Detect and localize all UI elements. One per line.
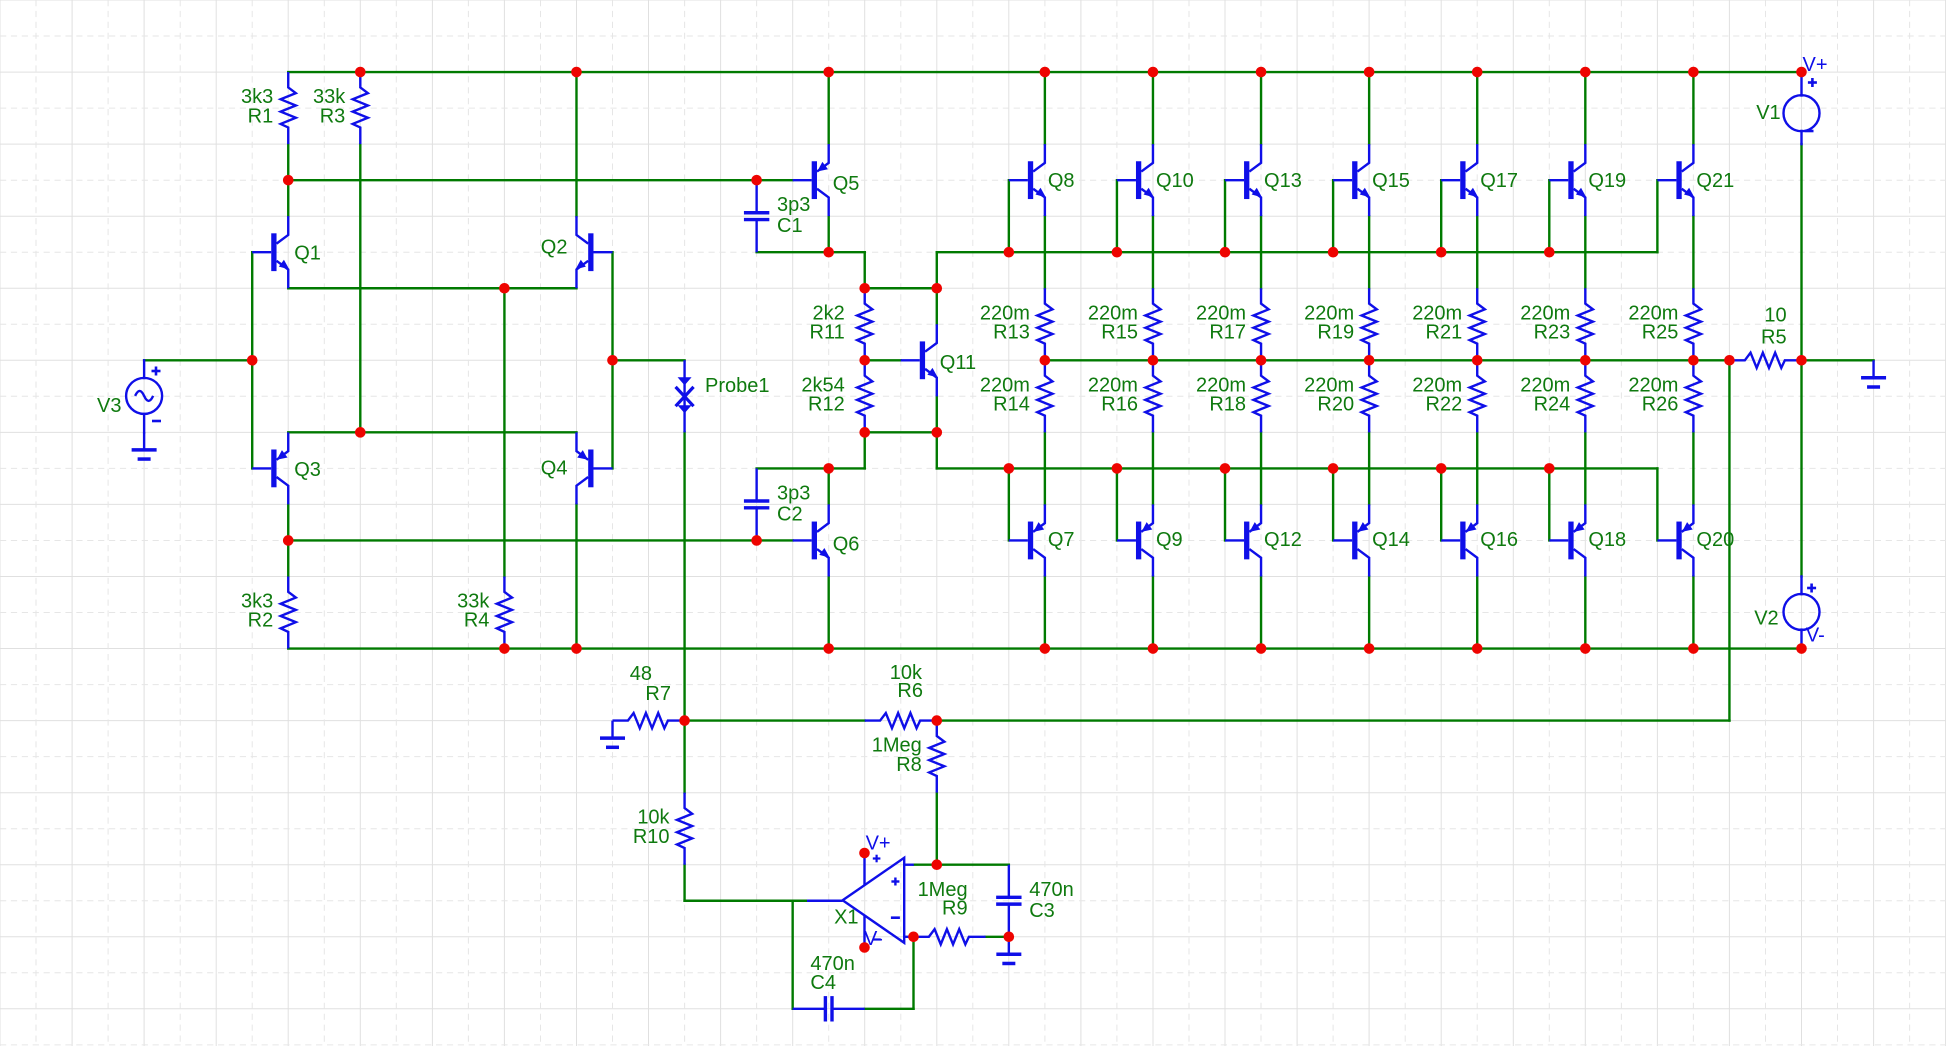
svg-text:48: 48 — [630, 663, 652, 685]
wire Q15 base column — [1332, 180, 1334, 252]
resistor R24 — [1578, 360, 1593, 432]
wire R22 to Q16 emitter — [1476, 432, 1478, 504]
wire V3 minus stub — [143, 414, 145, 432]
wire output rail y10 — [1045, 359, 1730, 361]
wire V3 plus stub — [143, 360, 145, 378]
junction top rail x23 — [823, 67, 834, 78]
wire Q18 collector down — [1584, 576, 1586, 648]
junction bias rail y7 x28 — [1004, 247, 1015, 258]
junction V3 node — [247, 355, 258, 366]
wire Q11 collector up — [936, 252, 938, 288]
junction bias rail y13 x43 — [1544, 463, 1555, 474]
wire R1 bottom to node — [287, 144, 289, 180]
junction bottom rail x35 — [1256, 643, 1267, 654]
svg-text:C3: C3 — [1029, 900, 1055, 922]
wire R20 to Q14 emitter — [1368, 432, 1370, 504]
resistor R25 — [1686, 288, 1701, 360]
wire V2 top column — [1800, 360, 1802, 576]
wire V3 to base node — [144, 359, 252, 361]
wire Q11 collector lead up — [936, 288, 938, 324]
junction bias rail y13 x28 — [1004, 463, 1015, 474]
svg-text:Q12: Q12 — [1264, 529, 1302, 551]
junction top rail x35 — [1256, 67, 1267, 78]
wire y8 R11 to Q11 — [865, 287, 937, 289]
svg-text:R4: R4 — [464, 610, 490, 632]
svg-text:X1: X1 — [834, 907, 858, 929]
svg-text:R10: R10 — [633, 826, 670, 848]
wire y13 C2 to corner — [757, 467, 865, 469]
wire Q17 emitter to R21 — [1476, 216, 1478, 288]
wire R8 bottom down — [936, 793, 938, 865]
wire R9 to C3 node — [986, 936, 1009, 938]
svg-text:Q8: Q8 — [1048, 170, 1075, 192]
wire Q2 Q4 base column — [611, 252, 613, 468]
capacitor C1 — [744, 180, 769, 252]
wire Q21 emitter to R25 — [1692, 216, 1694, 288]
svg-text:V1: V1 — [1756, 102, 1780, 124]
resistor R3 — [353, 72, 368, 144]
wire R10 bottom down — [683, 865, 685, 901]
junction C3 bottom — [1004, 931, 1015, 942]
resistor R26 — [1686, 360, 1701, 432]
svg-text:V-: V- — [864, 928, 883, 950]
wire Q9 base column — [1116, 468, 1118, 540]
transistor Q20 — [1657, 504, 1693, 576]
svg-text:3p3: 3p3 — [777, 482, 810, 504]
wire R4 column — [503, 288, 505, 576]
wire Q14 base column — [1332, 468, 1334, 540]
svg-text:V-: V- — [1806, 624, 1825, 646]
resistor R1 — [281, 72, 296, 144]
svg-text:Q3: Q3 — [294, 459, 321, 481]
transistor Q7 — [1009, 504, 1045, 576]
wire Q12 base column — [1224, 468, 1226, 540]
wire Probe1 down to R7 node — [683, 432, 685, 720]
junction bias rail y7 x31 — [1112, 247, 1123, 258]
wire Q13 collector up — [1260, 72, 1262, 144]
wire V1 plus stub — [1800, 75, 1802, 95]
junction bottom rail x29 — [1040, 643, 1051, 654]
junction opamp minus input — [908, 931, 919, 942]
wire y5 R1 to Q5 base — [288, 179, 792, 181]
junction bottom rail x50 — [1796, 643, 1807, 654]
junction output rail x32 — [1148, 355, 1159, 366]
svg-text:Q13: Q13 — [1264, 170, 1302, 192]
svg-text:R16: R16 — [1101, 394, 1138, 416]
junction bias rail y7 x43 — [1544, 247, 1555, 258]
transistor Q2 — [575, 216, 612, 288]
wire Q19 emitter to R23 — [1584, 216, 1586, 288]
wire Q14 collector down — [1368, 576, 1370, 648]
wire Q21 base column — [1656, 180, 1658, 252]
wire base column Q1 Q3 — [251, 252, 253, 468]
wire Q1 Q2 emitter rail — [288, 287, 576, 289]
svg-text:V3: V3 — [97, 395, 121, 417]
wire y15 to Q6 base — [288, 539, 792, 541]
resistor R10 — [677, 793, 692, 865]
junction Q3 collector R2 — [283, 535, 294, 546]
wire Q5 emitter down — [827, 216, 829, 252]
transistor Q14 — [1333, 504, 1369, 576]
transistor Q3 — [252, 432, 288, 504]
junction bias rail y7 x37 — [1328, 247, 1339, 258]
svg-text:Q19: Q19 — [1588, 170, 1626, 192]
wire top bias rail y7 — [937, 251, 1658, 253]
svg-text:Q4: Q4 — [541, 457, 568, 479]
wire Q21 collector up — [1692, 72, 1694, 144]
wire Q16 collector down — [1476, 576, 1478, 648]
wire opamp output green — [793, 900, 807, 902]
svg-text:R15: R15 — [1101, 321, 1138, 343]
svg-text:R21: R21 — [1426, 321, 1463, 343]
junction bottom rail x47 — [1688, 643, 1699, 654]
junction output rail x50 — [1796, 355, 1807, 366]
wire R14 to Q7 emitter — [1044, 432, 1046, 504]
transistor Q12 — [1225, 504, 1261, 576]
wire Q5 collector up — [827, 72, 829, 144]
svg-text:V2: V2 — [1754, 608, 1778, 630]
junction bottom rail x38 — [1364, 643, 1375, 654]
wire Q9 collector down — [1152, 576, 1154, 648]
wire top V+ rail — [288, 71, 1801, 73]
transistor Q6 — [793, 504, 830, 576]
resistor R11 — [857, 288, 872, 360]
junction output rail x41 — [1472, 355, 1483, 366]
junction R1 node — [283, 175, 294, 186]
junction probe tap — [607, 355, 618, 366]
resistor R15 — [1145, 288, 1160, 360]
resistor R6 — [865, 713, 937, 728]
junction output rail x38 — [1364, 355, 1375, 366]
voltage source V2 — [1784, 594, 1820, 630]
junction Q6 collector — [823, 463, 834, 474]
junction bias rail y13 x40 — [1436, 463, 1447, 474]
resistor R22 — [1470, 360, 1485, 432]
wire Q17 base column — [1440, 180, 1442, 252]
svg-text:R9: R9 — [942, 898, 968, 920]
wire node to Probe1 — [613, 359, 685, 361]
wire Q10 collector up — [1152, 72, 1154, 144]
svg-text:C1: C1 — [777, 215, 803, 237]
wire node to Q1 collector — [287, 180, 289, 216]
wire Q15 emitter to R19 — [1368, 216, 1370, 288]
resistor R2 — [281, 576, 296, 648]
junction bias rail y13 x37 — [1328, 463, 1339, 474]
wire R5 right to ground — [1802, 359, 1874, 361]
junction output rail x47 — [1688, 355, 1699, 366]
junction top rail x50 — [1796, 67, 1807, 78]
transistor Q8 — [1009, 144, 1046, 216]
junction R3 bottom — [355, 427, 366, 438]
resistor R12 — [857, 360, 872, 432]
wire Q18 base column — [1548, 468, 1550, 540]
junction bottom rail x23 — [823, 643, 834, 654]
svg-text:R20: R20 — [1317, 394, 1354, 416]
junction C2 bottom — [751, 535, 762, 546]
transistor Q19 — [1549, 144, 1586, 216]
junction top rail x41 — [1472, 67, 1483, 78]
svg-text:R25: R25 — [1642, 321, 1679, 343]
junction y8 R11 top — [859, 283, 870, 294]
svg-text:R12: R12 — [808, 394, 845, 416]
svg-text:R23: R23 — [1534, 321, 1571, 343]
junction bias rail y13 x34 — [1220, 463, 1231, 474]
wire C3 node to C3 top — [937, 864, 1009, 866]
wire Q8 collector up — [1044, 72, 1046, 144]
wire Q19 collector up — [1584, 72, 1586, 144]
resistor R21 — [1470, 288, 1485, 360]
transistor Q17 — [1441, 144, 1478, 216]
wire V2 minus stub — [1800, 630, 1802, 649]
svg-text:R1: R1 — [248, 105, 274, 127]
svg-text:Q15: Q15 — [1372, 170, 1410, 192]
junction bottom rail x32 — [1148, 643, 1159, 654]
resistor R18 — [1253, 360, 1268, 432]
transistor Q9 — [1117, 504, 1153, 576]
svg-text:Q9: Q9 — [1156, 529, 1183, 551]
op-amp X1 — [807, 853, 914, 948]
wire Q17 collector up — [1476, 72, 1478, 144]
wire R18 to Q12 emitter — [1260, 432, 1262, 504]
resistor R16 — [1145, 360, 1160, 432]
junction bottom rail x14 — [499, 643, 510, 654]
svg-text:V+: V+ — [866, 832, 891, 854]
voltage source V3 — [126, 378, 162, 414]
junction R7 node — [679, 715, 690, 726]
wire Q7 base column — [1008, 468, 1010, 540]
wire R3 column down — [359, 144, 361, 432]
transistor Q4 — [576, 432, 612, 504]
ground at R7 — [600, 721, 625, 748]
resistor R13 — [1037, 288, 1052, 360]
wire R7 to R6 — [685, 719, 865, 721]
wire R10 top column — [683, 721, 685, 793]
junction output rail x44 — [1580, 355, 1591, 366]
wire Q6 emitter down — [827, 576, 829, 648]
wire R12 node down — [864, 432, 866, 468]
wire bottom bias rail y13 — [937, 467, 1658, 469]
wire Q16 base column — [1440, 468, 1442, 540]
svg-text:R5: R5 — [1761, 326, 1787, 348]
node V+ terminal at op-amp — [859, 848, 870, 859]
resistor R9 — [914, 929, 986, 944]
ground at R5 — [1861, 360, 1886, 387]
transistor Q15 — [1333, 144, 1370, 216]
wire y12 R12 to Q11 emitter — [865, 431, 937, 433]
junction output rail x29 — [1040, 355, 1051, 366]
svg-text:C4: C4 — [810, 972, 836, 994]
capacitor C2 — [744, 468, 769, 540]
resistor R4 — [497, 576, 512, 648]
svg-text:Q2: Q2 — [541, 237, 568, 259]
wire R26 to Q20 emitter — [1692, 432, 1694, 504]
junction bias rail y13 x31 — [1112, 463, 1123, 474]
junction R11 R12 — [859, 355, 870, 366]
transistor Q18 — [1549, 504, 1585, 576]
resistor R23 — [1578, 288, 1593, 360]
svg-text:R19: R19 — [1317, 321, 1354, 343]
svg-text:R6: R6 — [897, 680, 923, 702]
junction R6 R8 node — [931, 715, 942, 726]
junction bottom rail x41 — [1472, 643, 1483, 654]
resistor R8 — [929, 721, 944, 793]
wire bottom emitter rail — [288, 647, 1801, 649]
wire Q11 emitter down — [936, 396, 938, 432]
junction top rail x29 — [1040, 67, 1051, 78]
svg-text:R2: R2 — [248, 610, 274, 632]
wire feedback column x48 — [1728, 360, 1730, 720]
resistor R19 — [1362, 288, 1377, 360]
wire Q11 emitter to bias rail — [936, 432, 938, 468]
junction top rail x16 — [571, 67, 582, 78]
svg-text:R24: R24 — [1534, 394, 1571, 416]
wire V1 bottom column — [1800, 144, 1802, 360]
wire R16 to Q9 emitter — [1152, 432, 1154, 504]
wire R11 R12 node to Q11 base — [865, 359, 901, 361]
ground at C3 — [996, 937, 1021, 964]
wire C4 left column — [791, 901, 793, 1009]
junction C1 top — [751, 175, 762, 186]
wire Q7 collector down — [1044, 576, 1046, 648]
svg-text:Q18: Q18 — [1588, 529, 1626, 551]
wire Q20 base column — [1656, 468, 1658, 540]
junction output rail x35 — [1256, 355, 1267, 366]
wire Q13 emitter to R17 — [1260, 216, 1262, 288]
wire Q6 collector up — [827, 468, 829, 504]
svg-text:R7: R7 — [645, 683, 671, 705]
junction top rail x38 — [1364, 67, 1375, 78]
voltage source V1 — [1784, 95, 1820, 131]
resistor R5 — [1729, 353, 1801, 368]
resistor R20 — [1362, 360, 1377, 432]
svg-text:Q16: Q16 — [1480, 529, 1518, 551]
junction Q11 emitter node — [931, 427, 942, 438]
wire Q8 emitter to R13 — [1044, 216, 1046, 288]
junction R12 bottom — [859, 427, 870, 438]
transistor Q5 — [793, 144, 829, 216]
wire Q12 collector down — [1260, 576, 1262, 648]
wire V2 plus stub — [1800, 576, 1802, 594]
transistor Q21 — [1657, 144, 1694, 216]
svg-text:Q7: Q7 — [1048, 529, 1075, 551]
wire opamp plus input to C3 node — [914, 864, 937, 866]
svg-text:R17: R17 — [1209, 321, 1246, 343]
wire Q13 base column — [1224, 180, 1226, 252]
svg-text:Q11: Q11 — [940, 352, 976, 374]
svg-text:R18: R18 — [1209, 394, 1246, 416]
junction top rail x47 — [1688, 67, 1699, 78]
junction y8 Q11 collector — [931, 283, 942, 294]
svg-text:Q20: Q20 — [1696, 529, 1734, 551]
svg-text:R13: R13 — [993, 321, 1030, 343]
wire Q3 collector to R2 — [287, 504, 289, 576]
wire Q15 collector up — [1368, 72, 1370, 144]
junction emitter rail R4 — [499, 283, 510, 294]
wire Q4 collector down — [575, 504, 577, 648]
junction top rail x32 — [1148, 67, 1159, 78]
capacitor C3 — [996, 865, 1021, 937]
transistor Q1 — [252, 216, 289, 288]
capacitor C4 — [793, 996, 865, 1021]
wire Q8 base column — [1008, 180, 1010, 252]
svg-text:R26: R26 — [1642, 394, 1679, 416]
svg-text:R8: R8 — [896, 754, 922, 776]
junction top rail x10 — [355, 67, 366, 78]
wire R6 to feedback node — [937, 719, 1730, 721]
probe Probe1 — [676, 360, 694, 432]
svg-text:C2: C2 — [777, 503, 803, 525]
junction bias rail y7 x40 — [1436, 247, 1447, 258]
svg-text:R3: R3 — [320, 105, 346, 127]
wire Q19 base column — [1548, 180, 1550, 252]
svg-text:Q1: Q1 — [294, 243, 321, 265]
svg-text:Probe1: Probe1 — [705, 375, 770, 397]
transistor Q13 — [1225, 144, 1262, 216]
ground at V3 — [132, 432, 157, 459]
junction bottom rail x16 — [571, 643, 582, 654]
svg-text:R11: R11 — [810, 321, 845, 343]
wire y7 corner down — [864, 252, 866, 288]
wire R24 to Q18 emitter — [1584, 432, 1586, 504]
svg-text:3p3: 3p3 — [777, 194, 810, 216]
wire R10 to opamp output — [685, 900, 793, 902]
transistor Q10 — [1117, 144, 1154, 216]
wire C1 bottom to R11 top — [757, 251, 865, 253]
svg-text:Q21: Q21 — [1696, 170, 1734, 192]
resistor R17 — [1253, 288, 1268, 360]
junction bottom rail x44 — [1580, 643, 1591, 654]
svg-text:Q5: Q5 — [833, 173, 860, 195]
svg-text:10: 10 — [1764, 305, 1786, 327]
svg-text:Q10: Q10 — [1156, 170, 1194, 192]
wire Q20 collector down — [1692, 576, 1694, 648]
junction Q5 emitter — [823, 247, 834, 258]
transistor Q11 — [901, 324, 938, 396]
wire C4 right horizontal — [865, 1008, 914, 1010]
wire C4 right column up — [912, 937, 914, 1009]
wire V1 minus stub — [1800, 131, 1802, 144]
svg-text:470n: 470n — [1029, 879, 1074, 901]
svg-text:R22: R22 — [1426, 394, 1463, 416]
wire Q10 base column — [1116, 180, 1118, 252]
node V- terminal at op-amp — [859, 942, 870, 953]
junction bias rail y7 x34 — [1220, 247, 1231, 258]
resistor R7 — [613, 713, 685, 728]
transistor Q16 — [1441, 504, 1477, 576]
wire Q2 collector column — [575, 72, 577, 216]
junction output rail x48 — [1724, 355, 1735, 366]
wire Q10 emitter to R15 — [1152, 216, 1154, 288]
junction R8 bottom node — [931, 859, 942, 870]
resistor R14 — [1037, 360, 1052, 432]
svg-text:Q6: Q6 — [833, 533, 860, 555]
wire y12 Q3 to Q4 — [288, 431, 576, 433]
svg-text:Q17: Q17 — [1480, 170, 1518, 192]
svg-text:Q14: Q14 — [1372, 529, 1410, 551]
svg-text:R14: R14 — [993, 394, 1030, 416]
junction top rail x44 — [1580, 67, 1591, 78]
